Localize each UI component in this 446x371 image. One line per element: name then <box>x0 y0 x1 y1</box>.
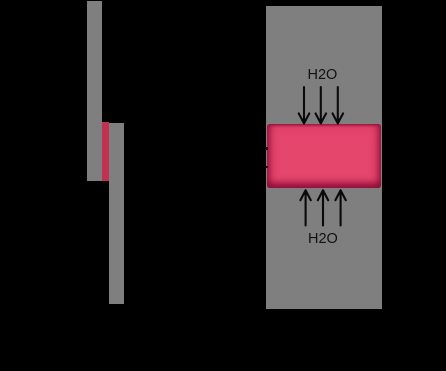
pink band (gel region) <box>267 124 381 188</box>
up arrow 2 <box>318 190 328 225</box>
H2O label bottom <box>308 232 338 247</box>
down arrow 2 <box>316 87 327 123</box>
H2O label top <box>308 68 338 83</box>
up arrow 1 <box>300 190 310 225</box>
left second gray slab <box>109 123 124 304</box>
left thin gray slab (side view membrane) <box>87 1 102 181</box>
tick mark upper on band left edge <box>265 147 268 150</box>
down arrow 3 <box>333 87 344 123</box>
left pink strip (side view gel band) <box>102 122 110 182</box>
right gray column (front view membrane) <box>266 6 382 309</box>
up arrow 3 <box>335 190 345 225</box>
tick mark lower on band left edge <box>265 166 268 169</box>
down arrow 1 <box>299 87 310 123</box>
